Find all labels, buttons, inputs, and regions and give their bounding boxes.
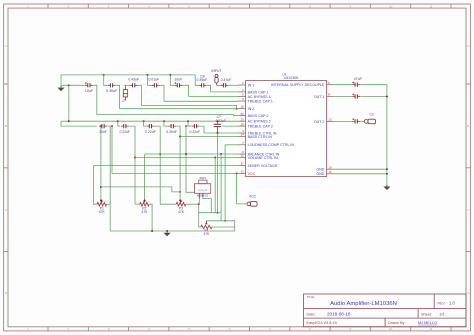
svg-text:10: 10 (389, 4, 393, 8)
svg-text:1/1: 1/1 (439, 311, 445, 316)
switch SW1 (199, 180, 207, 184)
node row2 left junction (68, 120, 70, 122)
node VCC branch (236, 172, 238, 174)
title block (304, 294, 467, 327)
pin 18 TREBLE CAP 2 (239, 125, 246, 127)
node bus junction 1 (103, 74, 105, 76)
svg-text:B: B (467, 124, 469, 128)
svg-text:AC BYPASS 2: AC BYPASS 2 (248, 120, 271, 124)
svg-text:16: 16 (328, 170, 332, 174)
svg-text:10uF: 10uF (85, 89, 93, 93)
svg-text:13: 13 (328, 118, 332, 122)
node volume rail junction right (214, 157, 216, 159)
wire left long drop (68, 85, 70, 121)
wire drop bass/P3 wiper (177, 126, 181, 200)
wire SW1 pin left down (198, 199, 200, 205)
wire top bus (61, 74, 195, 76)
svg-text:0.39uF: 0.39uF (197, 78, 208, 82)
wire bus left drop (60, 75, 62, 85)
pin 14 BASS CTRL IN (239, 136, 246, 138)
node row2 bus junction 4 (187, 120, 189, 122)
svg-text:GND: GND (316, 172, 324, 176)
wire rail BASS CAP 2 (97, 115, 239, 116)
node loop join (217, 212, 219, 214)
wire riser row2 cap2 (118, 121, 120, 126)
wire riser 0.39uF group (104, 75, 108, 85)
svg-text:BASS CAP 2: BASS CAP 2 (248, 114, 269, 118)
wire rail VOLUME CTRL (135, 157, 239, 159)
wire row2 bus (AC BYPASS 2) (61, 120, 239, 122)
svg-text:SW1: SW1 (200, 176, 207, 180)
svg-text:14: 14 (240, 133, 244, 137)
pin 7 LOUDNESS COMP CTRL IN (239, 144, 246, 146)
svg-text:VCC: VCC (249, 194, 257, 198)
pin 1 BASS CAP 1 (239, 91, 246, 93)
svg-text:15: 15 (240, 117, 244, 121)
svg-text:VOLUME CTRL IN: VOLUME CTRL IN (248, 156, 278, 160)
capacitor 47uF (355, 83, 357, 87)
wire 0.43uF drop (138, 85, 142, 105)
capacitor OUT1 (355, 94, 357, 98)
wire 0.47uF to IN1 (229, 84, 239, 86)
wire rail TREBLE CTRL (204, 132, 239, 134)
svg-text:C2: C2 (369, 112, 373, 116)
svg-text:VCC: VCC (248, 172, 256, 176)
wire drop to P1 wiper (100, 126, 102, 200)
svg-text:0.01uF: 0.01uF (149, 78, 160, 82)
svg-text:10: 10 (328, 165, 332, 169)
svg-text:12: 12 (240, 154, 244, 158)
wire volume drop to loop (214, 158, 216, 213)
wire 10uF drop (93, 85, 97, 114)
svg-text:LOUDNESS COMP CTRL IN: LOUDNESS COMP CTRL IN (248, 143, 295, 147)
capacitor 0.39uF (110, 83, 112, 87)
wire riser 0.01uF group (147, 75, 151, 85)
svg-text:47K: 47K (178, 210, 185, 214)
wire capline to TREBLE CAP 2 pin (222, 125, 239, 127)
svg-text:0.39uF: 0.39uF (106, 89, 117, 93)
svg-text:0.22uF: 0.22uF (216, 119, 226, 123)
svg-text:LM1036N: LM1036N (284, 76, 299, 80)
wire rail TREBLE CAP 1 (164, 100, 239, 102)
svg-text:47K: 47K (99, 210, 106, 214)
node OUT1 join (386, 96, 388, 98)
svg-text:A: A (467, 44, 469, 48)
pin 12 VOLUME CTRL IN (239, 157, 246, 159)
potentiometer P3 47K (176, 202, 186, 206)
svg-text:18: 18 (240, 122, 244, 126)
wire riser row2 cap4 (164, 121, 168, 126)
capacitor 0.39uF row2 (171, 124, 173, 128)
wire drop balance/P3 left (155, 126, 176, 204)
svg-text:A: A (5, 44, 7, 48)
svg-text:yw-2y-2k: yw-2y-2k (198, 190, 208, 192)
node ground rail junction P2 (151, 230, 153, 232)
capacitor 0.22uF a (124, 124, 126, 128)
wire gang rail P1-P3 wiper (101, 187, 180, 192)
pin 17 ZENER VOLTAGE (239, 164, 246, 166)
wire loop top (199, 213, 222, 221)
node loudness loop join (224, 220, 226, 222)
pin 2 IN 1 (239, 84, 246, 86)
wire rail AC BYPASS 1 (189, 95, 239, 97)
node P3 wiper (179, 199, 181, 201)
pin 19 IN 2 (239, 108, 246, 110)
pin 13 OUT 2 (327, 120, 334, 122)
potentiometer P4 47K (201, 225, 212, 229)
node P1 wiper (100, 199, 102, 201)
ground top-left (60, 86, 62, 88)
capacitor C1 (125, 85, 127, 89)
wire OUT2 to cap (334, 120, 352, 122)
wire 0.01uF drop (160, 85, 164, 101)
pin 4 TREBLE CTRL IN (239, 132, 246, 134)
capacitor 0.47uF (224, 83, 226, 87)
svg-text:17: 17 (240, 162, 244, 166)
wire 0.39uF drop to IN2 rail (116, 85, 120, 108)
node wiper tap P1 (100, 125, 102, 127)
svg-text:TITLE:: TITLE: (307, 295, 316, 299)
svg-text:INPUT: INPUT (211, 69, 221, 73)
pin 8 OUT 1 (327, 96, 334, 98)
svg-text:GND: GND (316, 168, 324, 172)
svg-text:2018-08-16: 2018-08-16 (327, 312, 351, 317)
wire balance drop to loop (220, 154, 222, 213)
wire GND 2 (334, 173, 387, 175)
pin 16 GND (327, 173, 334, 175)
node balance rail junction c (220, 153, 222, 155)
wire capline to cap5 (186, 125, 191, 127)
wire P2 right drop (149, 204, 152, 231)
capacitor 0.01uF (154, 83, 156, 87)
node P2 wiper (144, 199, 146, 201)
node row2 bus junction 1 (117, 120, 119, 122)
potentiometer P1 47K (97, 202, 107, 206)
wire SW1 pin right loop (203, 197, 211, 213)
svg-text:19: 19 (240, 105, 244, 109)
wire loudness drop (224, 145, 226, 221)
node balance rail junction b (185, 153, 187, 155)
wire rail BALANCE CTRL (145, 153, 239, 155)
wire riser row2 cap5 (187, 121, 189, 126)
wire P1 right lead (107, 203, 111, 205)
wire decouple to 47uF (334, 84, 352, 86)
wire rail LOUDNESS (225, 144, 238, 146)
wire P3 right lead (186, 203, 199, 205)
svg-text:Audio Amplifier-LM1036N: Audio Amplifier-LM1036N (330, 301, 397, 307)
wire jack to 0.47uF (217, 84, 221, 86)
wire rail dogleg to IN2 (142, 105, 237, 108)
capacitor 0.22uF c (194, 124, 196, 128)
pin 15 AC BYPASS 2 (239, 120, 246, 122)
node row2 bus junction 2 (143, 120, 145, 122)
svg-text:10nF: 10nF (99, 130, 107, 134)
connector INPUT (215, 74, 218, 77)
wire zener to P1 left (93, 165, 97, 204)
ground right (386, 185, 388, 187)
wire right vertical (361, 85, 387, 185)
wire treble down to loop (217, 133, 219, 213)
node row2 capline junction 4 (185, 125, 187, 127)
wire 10uF drop (183, 85, 189, 96)
capacitor 10uF input left (88, 83, 90, 87)
pin 6 INTERNAL SUPPLY DECOUPLE (327, 84, 334, 86)
node bass rail junction (179, 136, 181, 138)
wire GND 1 (334, 168, 387, 170)
svg-text:0.43uF: 0.43uF (128, 78, 139, 82)
svg-text:INTERNAL SUPPLY DECOUPLE: INTERNAL SUPPLY DECOUPLE (271, 83, 325, 87)
svg-text:BASS CTRL IN: BASS CTRL IN (248, 135, 273, 139)
svg-text:Drawn By:: Drawn By: (388, 321, 406, 325)
wire drop P2 left / volume corner (129, 126, 135, 204)
wire rail IN 2 (120, 108, 239, 110)
capacitor 10uF right (177, 83, 179, 87)
svg-text:10: 10 (389, 327, 393, 331)
svg-text:REV:: REV: (438, 301, 446, 305)
svg-text:BASS CAP 1: BASS CAP 1 (248, 90, 269, 94)
svg-text:47uF: 47uF (354, 77, 362, 81)
wire OUT1 to cap (334, 96, 352, 98)
wire VCC rail (112, 126, 239, 173)
node GND2 (386, 173, 388, 175)
wire cap5 drop to treble rail (200, 126, 204, 133)
wire P4 right lead (212, 226, 235, 228)
wire C8 drop (207, 85, 211, 92)
svg-text:0.22uF: 0.22uF (120, 130, 131, 134)
node bus junction 2 (146, 74, 148, 76)
pin 3 TREBLE CAP 1 (239, 100, 246, 102)
svg-text:TREBLE CAP 1: TREBLE CAP 1 (248, 99, 273, 103)
svg-text:47K: 47K (141, 210, 148, 214)
connector C2 (364, 120, 368, 124)
svg-text:20: 20 (240, 112, 244, 116)
pin 9 BALANCE CTRL IN (239, 153, 246, 155)
svg-text:ZENER VOLTAGE: ZENER VOLTAGE (248, 164, 278, 168)
svg-text:OUT 2: OUT 2 (314, 120, 325, 124)
node volume rail corner (134, 157, 136, 159)
node row2 bus junction 3 (163, 120, 165, 122)
svg-text:IN 2: IN 2 (248, 107, 255, 111)
wire 10nF drop to ground rail (107, 126, 110, 231)
svg-text:IN 1: IN 1 (248, 83, 255, 87)
capacitor 0.43uF (133, 83, 135, 87)
potentiometer P2 47K (140, 202, 150, 206)
svg-text:B: B (5, 124, 7, 128)
wire drop to SW1 left (186, 126, 195, 192)
svg-text:AC BYPASS 1: AC BYPASS 1 (248, 95, 271, 99)
wire rail ZENER (93, 164, 238, 166)
wire P2 left lead (135, 203, 140, 205)
wire rail BASS CTRL (180, 136, 238, 138)
svg-text:47K: 47K (204, 232, 211, 236)
svg-text:0.47uF: 0.47uF (221, 78, 232, 82)
node P3/SW1 junction (198, 203, 200, 205)
pin 5 AC BYPASS 1 (239, 95, 246, 97)
svg-text:EasyEDA V5.8.15: EasyEDA V5.8.15 (307, 321, 337, 325)
node GND1 (386, 168, 388, 170)
wire riser 10uF group (170, 75, 174, 85)
wire capline seg1 (61, 84, 85, 86)
wire riser row2 cap3 (144, 121, 147, 126)
pin 20 BASS CAP 2 (239, 115, 246, 117)
capacitor OUT2 (355, 119, 357, 123)
pin 11 VCC (239, 172, 246, 174)
wire ground rail (110, 230, 235, 232)
node ground rail junction gnd (166, 230, 168, 232)
ground bottom (166, 231, 168, 233)
wire row2 capline left (61, 121, 97, 126)
node gang rail join P3 (179, 191, 181, 193)
svg-text:TREBLE CAP 2: TREBLE CAP 2 (248, 125, 273, 129)
svg-text:Date:: Date: (307, 312, 316, 316)
svg-text:MJ MELLO: MJ MELLO (418, 321, 437, 325)
wire down to P4 left (199, 204, 201, 227)
connector VCC (247, 202, 251, 206)
wire OUT1 cap to vertical (361, 96, 387, 98)
wire OUT2 cap to C2 (361, 120, 364, 122)
svg-text:OUT 1: OUT 1 (314, 95, 325, 99)
svg-text:0.39uF: 0.39uF (166, 130, 177, 134)
capacitor 10nF (102, 124, 104, 128)
svg-text:11: 11 (429, 327, 432, 331)
wire bus end corner to C8 (195, 75, 198, 85)
svg-text:11: 11 (429, 4, 432, 8)
pin 10 GND (327, 168, 334, 170)
wire balance to P2 wiper (144, 154, 146, 200)
svg-text:1.0: 1.0 (449, 301, 455, 306)
svg-text:0.22uF: 0.22uF (190, 130, 201, 134)
node C7 top (217, 120, 219, 122)
capacitor 0.22uF b (149, 124, 151, 128)
node balance rail junction a (159, 153, 161, 155)
capacitor C8 0.39uF (202, 83, 204, 87)
node gang rail junction (100, 186, 102, 188)
wire loop right (206, 221, 234, 231)
svg-text:Sheet:: Sheet: (421, 312, 432, 316)
node bus junction 3 (169, 74, 171, 76)
svg-text:11: 11 (241, 170, 244, 174)
node IN2 rail join (236, 108, 238, 110)
wire rail BASS CAP 1 (211, 91, 239, 93)
IC U1 LM1036N (246, 80, 327, 176)
svg-text:0.22uF: 0.22uF (145, 130, 156, 134)
svg-text:10uF: 10uF (175, 78, 183, 82)
node capline junction (68, 84, 70, 86)
wire C1 top to 0.43uF (124, 84, 129, 86)
wire VCC connector drop (237, 173, 247, 204)
node treble rail junction (217, 132, 219, 134)
node vcc riser tap (111, 125, 113, 127)
